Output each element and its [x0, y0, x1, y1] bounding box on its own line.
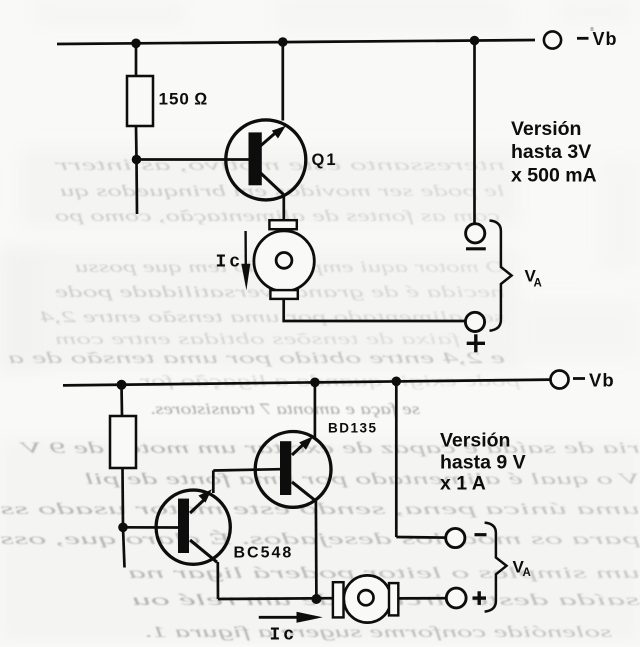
svg-text:se faça e amonta 7 transistore: se faça e amonta 7 transistores.: [150, 401, 420, 418]
svg-text:ser alimentado por uma tensão: ser alimentado por uma tensão entre 2,4: [40, 309, 505, 326]
wire Q1 emitter to motor: [282, 196, 285, 220]
motor M1: [254, 220, 314, 299]
brace VA (top): [490, 221, 512, 331]
wire BC548 emitter down: [216, 562, 219, 599]
wire dangling stub below node: [135, 160, 138, 215]
svg-text:V o qual é alimentado por uma: V o qual é alimentado por uma fonte de p…: [84, 471, 640, 488]
paper mottling patches: [0, 0, 640, 370]
wire BD135 emitter down: [315, 501, 318, 600]
terminal output1 minus: [466, 224, 485, 243]
terminal output2 plus: [446, 588, 466, 608]
wire output2 horizontal: [396, 536, 446, 539]
node dot rail1-Q1: [278, 37, 288, 47]
wire R2 top lead: [120, 385, 123, 416]
svg-text:x 1 A: x 1 A: [440, 472, 486, 494]
terminal output2 minus: [446, 528, 465, 547]
transistor Q1: [226, 120, 306, 200]
node dot R1-base junction: [132, 155, 142, 165]
terminal output1 plus: [465, 312, 484, 331]
node dot rail2-BD135: [310, 378, 320, 388]
current arrow Ic (top): [241, 231, 250, 290]
svg-text:e 2,4 entre obtido por uma ten: e 2,4 entre obtido por uma tensão de a: [8, 350, 505, 367]
svg-text:x 500 mA: x 500 mA: [511, 165, 597, 187]
svg-text:um simples o leitor poderá lig: um simples o leitor poderá ligar na: [128, 565, 640, 582]
wire R1 bottom lead: [135, 126, 138, 160]
wire motor2 to plus terminal: [398, 597, 446, 600]
wire BC548 collector up: [212, 471, 215, 494]
wire output2 vertical: [395, 381, 398, 537]
svg-text:solenóide conforme sugere a fi: solenóide conforme sugere a figura 1.: [144, 624, 612, 641]
transistor BC548: [156, 489, 230, 564]
node dot rail2-R2: [117, 380, 127, 390]
node dot emitter-motor junction: [311, 594, 321, 604]
svg-text:uma única pena, sendo este mot: uma única pena, sendo este motor usado s…: [0, 501, 640, 518]
wire bottom link to motor: [218, 597, 333, 600]
paper texture bands: [0, 148, 640, 643]
wire BC548 base: [123, 526, 178, 529]
terminal -Vb (top): [544, 31, 561, 48]
current arrow Ic (bottom): [259, 612, 323, 623]
wire BD135 base: [213, 469, 280, 470]
resistor R2: [110, 416, 136, 468]
svg-text:Ic: Ic: [216, 253, 244, 273]
wire Q1 collector to rail: [281, 42, 284, 121]
svg-text:Vb: Vb: [593, 29, 618, 49]
svg-text:BD135: BD135: [328, 421, 378, 436]
wire Q1 base: [137, 158, 249, 161]
svg-text:A: A: [534, 278, 542, 290]
label -Vb (top): [577, 37, 589, 40]
brace VA (bottom): [485, 523, 507, 612]
node dot R2-base junction: [118, 523, 128, 533]
resistor R1: [127, 76, 153, 126]
transistor BD135: [255, 432, 331, 508]
svg-text:Versión: Versión: [440, 429, 510, 451]
wire R1 top lead: [135, 43, 138, 76]
wire R2 bottom lead: [121, 468, 124, 527]
node dot rail1-R1: [131, 39, 141, 49]
wire BD135 collector to rail: [314, 382, 317, 438]
svg-text:Versión: Versión: [511, 118, 581, 140]
wire rail2: [63, 380, 551, 386]
wire rail1: [57, 40, 535, 44]
motor M2: [333, 575, 398, 622]
wire dangling stub below node2: [123, 527, 125, 567]
node dot rail1-output: [470, 36, 480, 46]
svg-text:BC548: BC548: [234, 545, 294, 562]
svg-text:Vb: Vb: [589, 370, 615, 391]
svg-text:Q1: Q1: [312, 151, 338, 169]
svg-text:hasta 3V: hasta 3V: [511, 141, 591, 163]
label -Vb (bottom): [573, 377, 585, 380]
speck near top rail: [591, 27, 594, 31]
wire motor1 bottom lead: [284, 299, 465, 321]
svg-text:A: A: [523, 567, 531, 579]
wire output1 top: [473, 41, 476, 224]
svg-text:nteressanto este motivo, as in: nteressanto este motivo, as interr: [53, 157, 505, 174]
BLEED-THROUGH TEXT LAYER (mirrored, grey): [0, 157, 640, 641]
svg-text:hasta 9 V: hasta 9 V: [440, 452, 526, 474]
svg-text:para os modelos desejados. É c: para os modelos desejados. É claro que, …: [0, 529, 640, 548]
node dot rail2-output: [392, 377, 402, 387]
svg-text:faixa de tensões obtidas entre: faixa de tensões obtidas entre com: [55, 331, 460, 348]
svg-text:Ic: Ic: [270, 626, 298, 646]
terminal -Vb (bottom): [551, 371, 569, 389]
svg-text:150 Ω: 150 Ω: [159, 90, 209, 109]
